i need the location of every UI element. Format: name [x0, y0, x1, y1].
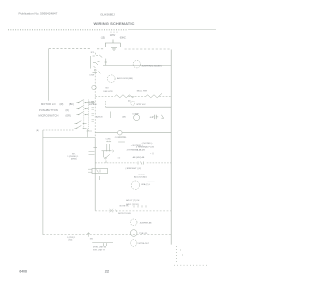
svg-text:W/TBL/SLT: W/TBL/SLT	[138, 243, 149, 245]
junction scribble	[110, 209, 118, 213]
svg-text:( BRN/WHT ) (X): ( BRN/WHT ) (X)	[126, 168, 142, 170]
node right rail (line side)	[170, 50, 172, 245]
motor M4 fan (dashed)	[131, 181, 139, 189]
motor M2 air door (dashed optional)	[108, 75, 116, 83]
svg-text:W/A (C) L: W/A (C) L	[141, 183, 151, 186]
connector marks	[138, 162, 144, 165]
tick marks under rule	[111, 32, 117, 34]
svg-text:A(W) B: A(W) B	[96, 115, 103, 118]
svg-text:JUMPER(S) 3A (BK): JUMPER(S) 3A (BK)	[142, 64, 162, 67]
svg-text:NO: NO	[106, 87, 110, 89]
wire bottom dashed run	[43, 234, 172, 236]
svg-text:WTR VLV: WTR VLV	[136, 104, 146, 106]
wire top rail segment 3	[125, 48, 171, 50]
svg-text:40W BLB: 40W BLB	[89, 104, 98, 106]
wire heater to rail	[159, 95, 171, 97]
row 3 heater wire	[95, 95, 115, 97]
svg-text:MOTOR LO: MOTOR LO	[41, 102, 56, 106]
svg-text:A/D LT (T) CH: A/D LT (T) CH	[126, 199, 140, 202]
wire branch dashed	[43, 129, 74, 131]
svg-text:- ( NOTES ) -: - ( NOTES ) -	[141, 143, 154, 145]
motor M6 dispenser (dashed)	[130, 240, 137, 247]
node left rail (neutral, lower solid)	[94, 139, 96, 211]
switch S1 interlock cluster	[90, 53, 107, 74]
connector J1 marks	[106, 141, 111, 142]
svg-text:4 TERMINAL PLUG: 4 TERMINAL PLUG	[136, 145, 155, 148]
svg-text:NOTE TK B/U: NOTE TK B/U	[118, 213, 132, 215]
svg-text:+ ( ): + ( )	[150, 153, 154, 155]
solenoid K2 jumper (dashed)	[130, 219, 137, 226]
pin numbers by rail	[92, 102, 95, 122]
lamp LT1	[92, 85, 96, 89]
svg-text:DEF HTR: DEF HTR	[104, 91, 114, 93]
thermostat box on left rail	[92, 169, 108, 174]
svg-text:(6): (6)	[128, 101, 131, 103]
motor M3 compressor	[134, 115, 140, 121]
svg-text:60HZ.: 60HZ.	[120, 37, 127, 40]
wire left branch vertical (bottom)	[42, 130, 44, 235]
svg-text:A/D: A/D	[122, 116, 126, 119]
svg-text:MICROSWITCH: MICROSWITCH	[39, 114, 59, 118]
svg-text:(XX): (XX)	[69, 240, 73, 242]
svg-text:(BRN): (BRN)	[71, 159, 77, 161]
wire block to rail	[87, 103, 96, 131]
svg-text:L/SW: L/SW	[90, 75, 95, 77]
svg-text:PUSHBUTTON: PUSHBUTTON	[39, 108, 58, 112]
svg-text:Publication No. 5995424847: Publication No. 5995424847	[19, 11, 58, 15]
pin 1	[106, 144, 108, 151]
svg-text:(W): (W)	[60, 103, 64, 106]
pins under label	[134, 205, 146, 207]
svg-text:(B): (B)	[36, 130, 39, 132]
row 1 wire	[103, 65, 171, 67]
wire top rail segment 2	[97, 48, 105, 50]
wire branch solid	[43, 136, 95, 138]
wire bottom-left	[92, 242, 113, 244]
svg-text:1 ( ) 1: 1 ( ) 1	[137, 150, 143, 152]
marks in box	[97, 170, 101, 173]
svg-text:(BK): (BK)	[69, 103, 74, 106]
header dotted rule	[8, 29, 128, 31]
row 6 wire	[95, 132, 117, 134]
wire mid dashed row	[95, 162, 136, 164]
wire block drop	[86, 129, 88, 138]
svg-text:STR. LNE TT: STR. LNE TT	[93, 250, 106, 252]
svg-text:JUMPER AB: JUMPER AB	[140, 222, 152, 225]
svg-text:C (W): C (W)	[106, 139, 111, 141]
decorative dotted corner	[176, 246, 183, 262]
junction on left rail	[93, 147, 97, 149]
thermostat TH1	[118, 130, 123, 135]
plug P1 115V 60Hz	[105, 40, 120, 51]
svg-text:-- --- --: -- --- --	[139, 173, 145, 175]
wire row6 right	[122, 132, 171, 134]
svg-text:NOTE TK: NOTE TK	[120, 205, 130, 207]
relay contact	[161, 115, 164, 118]
node L1 top supply rail (dashed)	[49, 48, 91, 50]
wire between heaters	[128, 95, 146, 97]
resistor R1 defrost heater	[115, 95, 134, 98]
wire row5 stub	[110, 112, 112, 119]
svg-text:S/N: S/N	[90, 239, 94, 241]
node left rail (neutral, upper dashed)	[94, 73, 96, 140]
motor M1 timer (dashed)	[133, 60, 140, 67]
row 4 wire	[106, 106, 172, 108]
svg-text:(O): (O)	[66, 109, 70, 112]
svg-text:MTRL LNE TT: MTRL LNE TT	[93, 247, 107, 249]
wire mid dashed row right	[147, 162, 172, 164]
svg-text:ADJ (XX) ADJ: ADJ (XX) ADJ	[134, 176, 147, 179]
svg-text:6408: 6408	[19, 270, 27, 274]
wire riser to water valve row	[105, 101, 107, 107]
svg-text:115V: 115V	[110, 34, 116, 37]
svg-text:1 2: 1 2	[118, 158, 121, 160]
svg-text:. . . . . . .: . . . . . . .	[148, 181, 155, 183]
connector J1 dashes	[118, 137, 125, 142]
svg-text:(OR): (OR)	[66, 115, 71, 118]
wire left branch vertical	[48, 49, 50, 101]
svg-text:22: 22	[105, 269, 110, 274]
switch S3 contact pivots	[76, 102, 85, 129]
svg-text:N?L: N?L	[91, 52, 96, 54]
svg-text:AIR DOOR (BR): AIR DOOR (BR)	[117, 77, 133, 80]
switch S3 contact stack	[75, 100, 89, 129]
solenoid K1 water valve	[131, 101, 135, 105]
svg-text:MULL HTR: MULL HTR	[137, 91, 148, 93]
resistor R2 mullion heater	[146, 93, 162, 98]
pin arrow	[112, 150, 114, 152]
capacitor C2 marks	[104, 243, 107, 248]
switch S2 door switch	[102, 151, 112, 163]
svg-text:GLHS68EJ: GLHS68EJ	[100, 12, 115, 16]
rail tick pairs	[89, 152, 95, 155]
switch S3 gang links (dashed)	[83, 100, 85, 129]
svg-text:WIRING SCHEMATIC: WIRING SCHEMATIC	[93, 21, 134, 26]
node bottom rail (dashed)	[95, 210, 171, 212]
svg-text:AB (M/V) AB: AB (M/V) AB	[133, 156, 145, 159]
capacitor C1 run cap	[152, 115, 158, 119]
stub below box	[99, 176, 101, 180]
dotted line bottom right	[174, 264, 208, 266]
pin 2	[109, 144, 111, 151]
motor M5 auger	[130, 230, 137, 237]
svg-text:(15): (15)	[101, 37, 105, 40]
junction mark	[87, 232, 90, 237]
